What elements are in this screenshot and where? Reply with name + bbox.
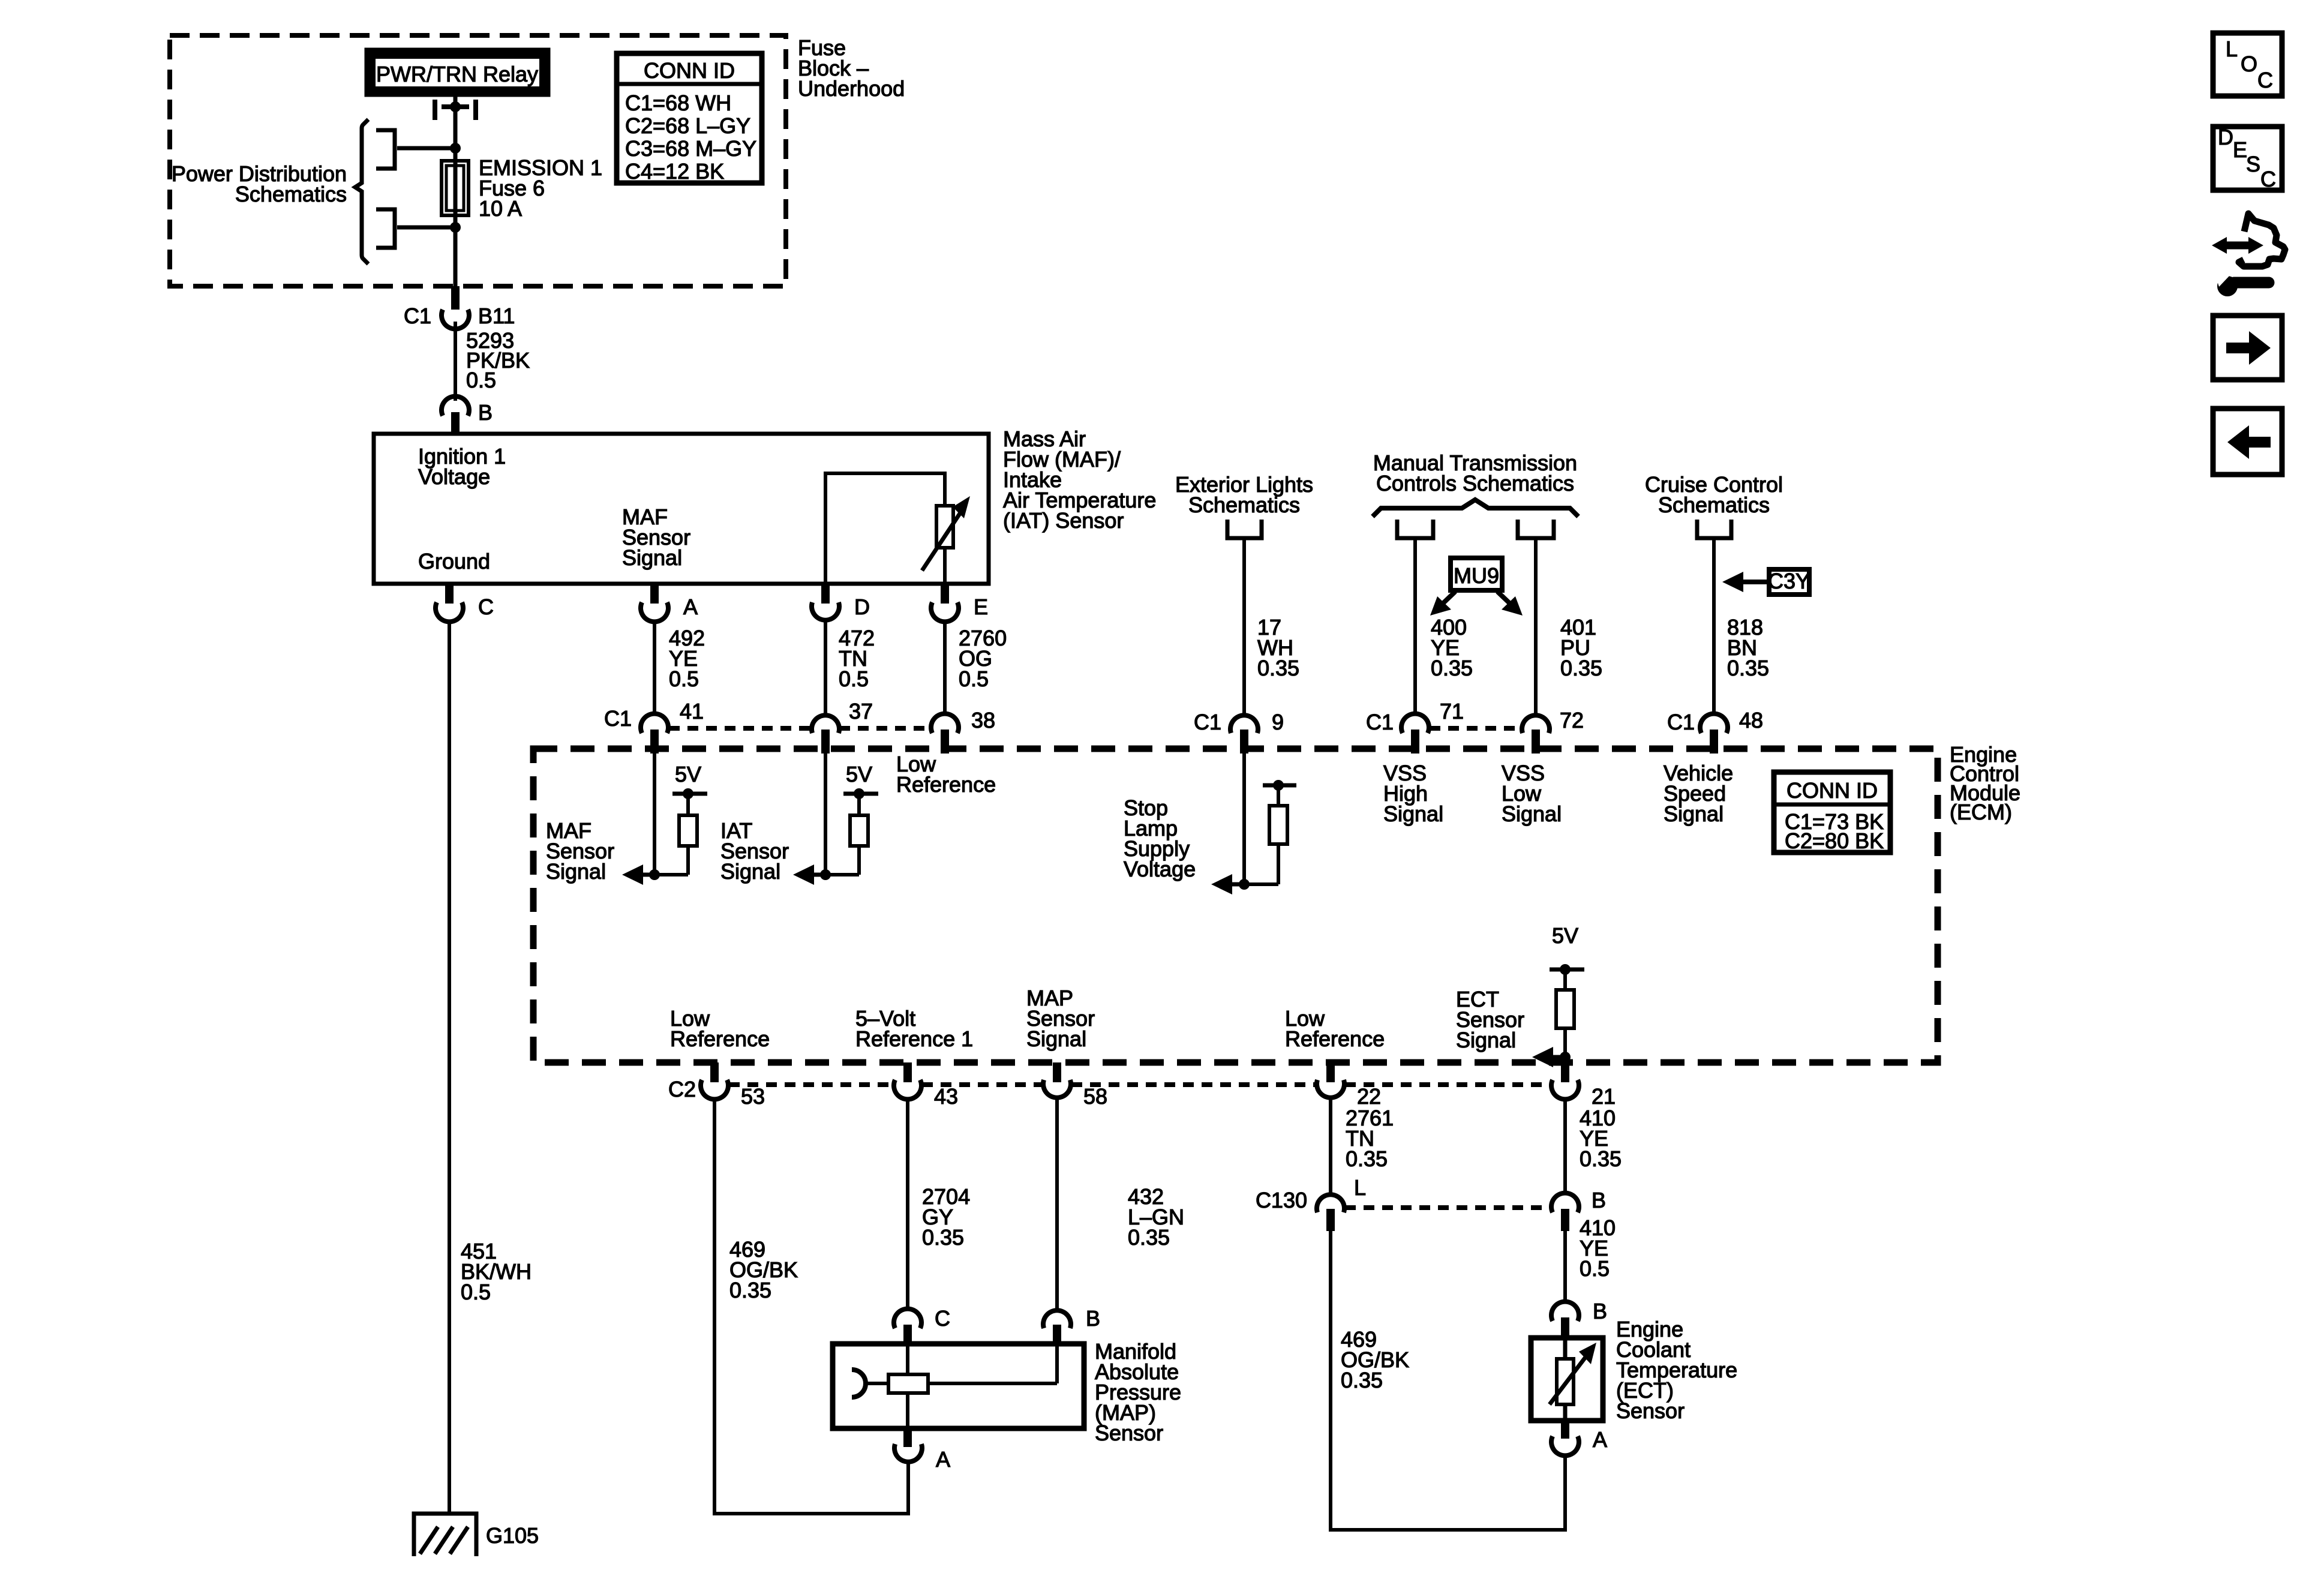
svg-text:43: 43: [934, 1084, 958, 1109]
wire ECT junction to pin 21: [1563, 1057, 1567, 1062]
svg-text:0.35: 0.35: [1341, 1368, 1383, 1392]
svg-text:0.35: 0.35: [1580, 1146, 1622, 1171]
wire pin 43 to MAP pin C (2704 GY): [906, 1098, 909, 1311]
svg-text:Signal: Signal: [1502, 801, 1562, 826]
svg-text:C: C: [2260, 167, 2276, 191]
label 400 YE 0.35: [1431, 615, 1473, 680]
label Engine Coolant Temperature (ECT) Sensor: [1616, 1317, 1737, 1423]
svg-text:C: C: [935, 1306, 950, 1331]
label Manual Transmission Controls Schematics: [1373, 451, 1577, 496]
svg-text:B: B: [478, 400, 493, 425]
label Mass Air Flow (MAF)/ Intake Air Temperature (IAT) Sensor: [1003, 427, 1156, 533]
C130 connector L: [1317, 1194, 1344, 1231]
svg-text:41: 41: [680, 699, 704, 724]
stop lamp pullup resistor: [1244, 780, 1296, 884]
icon vehicle with wrench: [2212, 214, 2285, 296]
label Fuse Block Underhood: [798, 35, 905, 101]
svg-text:71: 71: [1440, 699, 1464, 724]
relay contact terminal upper: [376, 130, 395, 169]
svg-text:0.5: 0.5: [959, 667, 989, 691]
page stub VSS low: [1518, 520, 1554, 538]
fuse block underhood dashed box: [170, 35, 786, 286]
svg-text:CONN ID: CONN ID: [644, 58, 735, 83]
svg-text:O: O: [2241, 52, 2257, 76]
label Low Reference (pin 38): [896, 752, 996, 797]
page stub VSS high: [1397, 520, 1433, 538]
ECT sensor box: [1531, 1338, 1603, 1421]
svg-text:10 A: 10 A: [479, 196, 522, 221]
svg-text:C: C: [2257, 68, 2273, 92]
node ECT signal junction: [1560, 1052, 1571, 1062]
ECT pin B connector: [1551, 1302, 1579, 1338]
dashed link 53-43: [729, 1082, 893, 1087]
internal wire D to IAT: [825, 473, 945, 584]
svg-text:C: C: [478, 595, 494, 619]
svg-text:Voltage: Voltage: [1124, 857, 1196, 881]
pin A connector: [641, 584, 668, 622]
dashed link C130 L-B: [1345, 1205, 1551, 1210]
svg-text:C1: C1: [1194, 710, 1221, 734]
pin D connector: [812, 584, 839, 620]
svg-text:A: A: [936, 1447, 950, 1472]
wire pin 58 to MAP pin B (432 L-GN): [1055, 1098, 1059, 1311]
label MAF Sensor Signal: [546, 818, 614, 884]
svg-text:72: 72: [1560, 708, 1584, 733]
svg-text:C1=68 WH: C1=68 WH: [625, 91, 731, 115]
svg-text:0.35: 0.35: [922, 1225, 964, 1250]
wire pin 22 to C130 L (2761 TN): [1329, 1098, 1332, 1194]
PWR/TRN Relay box: [369, 52, 546, 92]
svg-text:(ECM): (ECM): [1950, 800, 2012, 824]
MAF/IAT sensor box: [374, 434, 989, 584]
svg-text:C3Y: C3Y: [1768, 569, 1810, 593]
label Low Reference (pin 53): [670, 1006, 770, 1051]
ECM pin 48 connector: [1700, 714, 1728, 754]
dashed link 43-58: [922, 1082, 1043, 1087]
MAP pin B connector: [1043, 1310, 1071, 1344]
brace manual transmission: [1373, 500, 1578, 517]
svg-text:E: E: [2233, 137, 2247, 162]
svg-text:0.35: 0.35: [1257, 656, 1299, 680]
node: fuse top junction: [397, 143, 461, 154]
ECM pin 43 connector: [894, 1062, 921, 1099]
ECT thermistor symbol: [1550, 1338, 1596, 1421]
svg-text:37: 37: [849, 699, 873, 724]
IAT 5V pullup: [825, 762, 878, 875]
svg-text:38: 38: [971, 708, 995, 733]
label 492 YE 0.5: [669, 626, 705, 691]
ECM pin 53 connector: [701, 1062, 728, 1099]
svg-text:0.35: 0.35: [1128, 1225, 1170, 1250]
svg-text:Signal: Signal: [1664, 801, 1724, 826]
svg-text:MU9: MU9: [1454, 563, 1499, 588]
label VSS High Signal: [1383, 761, 1443, 826]
svg-text:0.5: 0.5: [1580, 1256, 1610, 1281]
label Vehicle Speed Signal: [1664, 761, 1733, 826]
C130 connector B: [1551, 1193, 1579, 1231]
svg-text:Reference: Reference: [1285, 1026, 1385, 1051]
svg-text:Signal: Signal: [1456, 1028, 1516, 1052]
label 472 TN 0.5: [839, 626, 875, 691]
wire 5293: [454, 322, 457, 401]
dashed link 58-22: [1071, 1082, 1316, 1087]
svg-text:Controls Schematics: Controls Schematics: [1376, 471, 1574, 496]
label 2760 OG 0.5: [959, 626, 1007, 691]
svg-text:G105: G105: [486, 1523, 539, 1548]
svg-text:C1: C1: [604, 706, 632, 731]
label 17 WH 0.35: [1257, 615, 1299, 680]
svg-text:0.5: 0.5: [839, 667, 869, 691]
svg-text:L: L: [2226, 37, 2238, 61]
svg-text:C1: C1: [1366, 710, 1394, 734]
svg-text:0.5: 0.5: [669, 667, 699, 691]
label Cruise Control Schematics: [1645, 472, 1783, 517]
svg-text:Sensor: Sensor: [1095, 1421, 1163, 1445]
label Power Distribution Schematics: [172, 161, 347, 206]
connector B: [442, 397, 469, 433]
icon LOC: [2213, 33, 2282, 96]
pin C connector: [436, 584, 463, 622]
svg-text:22: 22: [1357, 1084, 1381, 1109]
label MAP Sensor Signal (pin 58): [1026, 986, 1095, 1051]
ECT signal arrow: [1532, 1047, 1565, 1067]
label Ignition 1 Voltage: [418, 444, 506, 489]
MAF signal arrow: [622, 864, 654, 885]
C3Y arrow: [1722, 572, 1769, 592]
brace Power Distribution: [355, 119, 368, 264]
wire pin D to ECM 37: [824, 620, 827, 716]
svg-text:21: 21: [1592, 1084, 1616, 1109]
wire ECM pin 9 to stop lamp junction: [1242, 754, 1246, 884]
svg-text:5V: 5V: [675, 762, 701, 786]
svg-text:S: S: [2246, 152, 2260, 176]
label Engine Control Module (ECM): [1950, 742, 2020, 824]
wire from relay through fuse: [454, 97, 458, 309]
ECT pin A connector: [1551, 1421, 1579, 1455]
label 401 PU 0.35: [1560, 615, 1602, 680]
svg-text:5V: 5V: [1552, 923, 1578, 948]
wire ECM pin 37 to IAT signal arrow: [824, 754, 827, 875]
ECM pin 72 connector: [1522, 715, 1550, 754]
IAT signal arrow: [793, 864, 825, 885]
ECM pin 58 connector: [1043, 1062, 1071, 1098]
IAT thermistor symbol: [922, 496, 970, 571]
svg-text:B11: B11: [478, 304, 515, 328]
svg-text:C4=12 BK: C4=12 BK: [625, 159, 724, 184]
wire pin 53 to MAP pin A (469 OG/BK): [714, 1098, 908, 1514]
svg-text:C2=68 L–GY: C2=68 L–GY: [625, 113, 750, 138]
svg-text:(IAT) Sensor: (IAT) Sensor: [1003, 508, 1124, 533]
icon arrow left: [2213, 409, 2282, 475]
wire 17 WH to ECM 9: [1242, 540, 1246, 716]
svg-text:C3=68 M–GY: C3=68 M–GY: [625, 136, 756, 161]
svg-text:C130: C130: [1256, 1188, 1307, 1212]
svg-text:B: B: [1592, 1188, 1606, 1212]
svg-text:Schematics: Schematics: [1188, 493, 1300, 517]
wire pin 21 to C130 B (410 YE): [1563, 1098, 1567, 1194]
label Stop Lamp Supply Voltage: [1124, 795, 1196, 881]
svg-text:Sensor: Sensor: [1616, 1398, 1685, 1423]
wire C130 L to ECT loop (469 OG/BK): [1331, 1231, 1565, 1530]
svg-text:Underhood: Underhood: [798, 76, 905, 101]
svg-text:Signal: Signal: [720, 859, 780, 884]
label 5293 PK/BK 0.5: [466, 328, 530, 392]
svg-text:B: B: [1593, 1299, 1607, 1323]
CONN ID box (ECM): [1774, 772, 1890, 853]
svg-text:A: A: [683, 595, 698, 619]
svg-text:48: 48: [1739, 708, 1763, 733]
svg-text:Signal: Signal: [1026, 1026, 1086, 1051]
label 469 OG/BK 0.35 (ECT): [1341, 1327, 1409, 1392]
node stop lamp junction: [1239, 879, 1250, 890]
MAP pin A connector: [894, 1428, 922, 1462]
svg-text:Schematics: Schematics: [1658, 493, 1770, 517]
node IAT signal junction: [820, 869, 831, 880]
label 469 OG/BK 0.35: [729, 1237, 798, 1302]
node MAF signal junction: [649, 869, 660, 880]
relay terminal symbol: [435, 100, 476, 120]
wire pin A to ECM 41: [653, 620, 656, 716]
svg-text:Reference: Reference: [670, 1026, 770, 1051]
wire pin E to ECM 38: [943, 620, 947, 716]
label 410 YE 0.35: [1580, 1106, 1622, 1171]
dashed link 41-37: [669, 726, 812, 731]
ECM pin 21 connector: [1551, 1062, 1579, 1099]
C3Y connector box: [1768, 569, 1810, 595]
ECM dashed box: [533, 749, 1938, 1062]
CONN ID box (fuse block): [617, 53, 762, 184]
svg-text:0.35: 0.35: [729, 1278, 771, 1302]
svg-text:D: D: [2218, 125, 2233, 149]
svg-text:53: 53: [741, 1084, 765, 1109]
wire C130 B to ECT pin B (410 YE 0.5): [1563, 1231, 1567, 1302]
ECM pin 22 connector: [1317, 1062, 1344, 1098]
node: fuse bottom junction: [397, 222, 461, 233]
page stub exterior lights: [1227, 520, 1262, 538]
MU9 arrow left: [1430, 592, 1455, 616]
MU9 arrow right: [1497, 592, 1523, 616]
dashed link 37-38: [839, 726, 931, 731]
label Low Reference (pin 22): [1285, 1006, 1385, 1051]
ECM pin 41 connector: [641, 714, 668, 754]
svg-text:58: 58: [1083, 1084, 1107, 1109]
svg-text:CONN ID: CONN ID: [1786, 778, 1878, 803]
svg-text:9: 9: [1272, 710, 1284, 734]
MAP sensor box: [833, 1344, 1084, 1428]
wire pin C to ground (451 BK/WH): [448, 620, 451, 1514]
svg-text:Signal: Signal: [622, 545, 682, 570]
svg-text:C1: C1: [1667, 710, 1695, 734]
icon arrow right: [2213, 316, 2282, 380]
icon DESC: [2213, 125, 2282, 191]
dashed link 71-72: [1430, 726, 1522, 731]
MU9 splice box: [1451, 558, 1502, 590]
ground G105: [414, 1514, 476, 1556]
dashed link 22-21: [1345, 1082, 1551, 1087]
ECT 5V pullup: [1550, 923, 1584, 1057]
svg-text:Reference 1: Reference 1: [855, 1026, 973, 1051]
label 818 BN 0.35: [1727, 615, 1769, 680]
svg-text:0.35: 0.35: [1431, 656, 1473, 680]
fuse EMISSION 1 Fuse 6 10 A: [442, 161, 469, 215]
svg-text:B: B: [1086, 1306, 1100, 1331]
internal wire IAT to E pin: [943, 548, 947, 584]
label MAF Sensor Signal: [622, 505, 690, 570]
svg-text:5V: 5V: [846, 762, 872, 786]
svg-text:A: A: [1593, 1427, 1607, 1452]
MAF 5V pullup: [654, 762, 707, 875]
wire ECM pin 41 to MAF signal arrow: [653, 754, 656, 875]
svg-text:0.35: 0.35: [1560, 656, 1602, 680]
label 2761 TN 0.35: [1346, 1106, 1394, 1171]
ECM pin 71 connector: [1401, 714, 1429, 754]
svg-text:Ground: Ground: [418, 549, 490, 574]
label VSS Low Signal: [1502, 761, 1562, 826]
svg-text:L: L: [1354, 1175, 1366, 1200]
svg-text:0.5: 0.5: [461, 1280, 491, 1304]
MAP pin C connector: [894, 1309, 921, 1344]
page stub cruise control: [1697, 520, 1731, 538]
relay contact terminal lower: [376, 209, 395, 248]
label 432 L-GN 0.35: [1128, 1184, 1184, 1250]
svg-text:Signal: Signal: [1383, 801, 1443, 826]
svg-text:D: D: [854, 595, 870, 619]
ECM pin 38 connector: [931, 714, 959, 754]
label 5-Volt Reference 1 (pin 43): [855, 1006, 973, 1051]
svg-text:PWR/TRN Relay: PWR/TRN Relay: [376, 62, 538, 86]
svg-text:E: E: [974, 595, 988, 619]
label 451 BK/WH 0.5: [461, 1239, 532, 1304]
ECM pin 37 connector: [812, 715, 839, 754]
svg-text:C1: C1: [404, 304, 431, 328]
svg-text:Voltage: Voltage: [418, 464, 490, 489]
label EMISSION 1 Fuse 6 10 A: [479, 155, 602, 221]
label IAT Sensor Signal: [720, 818, 789, 884]
pin E connector: [931, 584, 959, 622]
wire 401 PU to ECM 72: [1534, 540, 1538, 716]
svg-text:Signal: Signal: [546, 859, 606, 884]
connector C1 B11: [442, 286, 469, 329]
label ECT Sensor Signal: [1456, 987, 1524, 1052]
svg-text:C2=80 BK: C2=80 BK: [1785, 828, 1884, 853]
svg-text:0.35: 0.35: [1727, 656, 1769, 680]
wire 818 BN to ECM 48: [1712, 540, 1716, 716]
label 2704 GY 0.35: [922, 1184, 970, 1250]
ECM pin 9 connector: [1230, 715, 1258, 754]
MAP internal element: [864, 1344, 1057, 1428]
svg-text:0.35: 0.35: [1346, 1146, 1388, 1171]
svg-text:Schematics: Schematics: [235, 182, 347, 206]
label Manifold Absolute Pressure (MAP) Sensor: [1095, 1339, 1181, 1445]
stop lamp arrow: [1211, 874, 1244, 894]
svg-text:0.5: 0.5: [466, 368, 496, 392]
svg-text:Reference: Reference: [896, 772, 996, 797]
wire 400 YE to ECM 71: [1413, 540, 1417, 716]
MAP internal pressure port symbol: [852, 1370, 866, 1397]
label Exterior Lights Schematics: [1175, 472, 1313, 517]
label 410 YE 0.5: [1580, 1215, 1616, 1281]
svg-text:C2: C2: [668, 1077, 696, 1101]
